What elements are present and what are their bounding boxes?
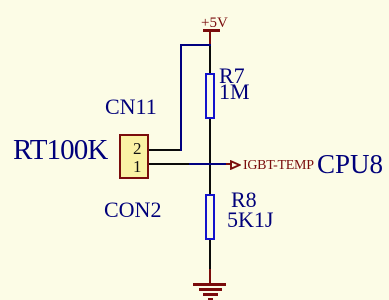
R8 value 5K1J (227, 209, 273, 231)
ground bar 1 (193, 283, 226, 286)
pin 2 number (133, 140, 142, 157)
wire pin2-to-+5V (180, 44, 211, 46)
resistor R7 pin 1 (209, 46, 211, 75)
wire pin1-to-port (189, 163, 227, 165)
pin 1 number (133, 158, 142, 175)
RT100K label (13, 136, 107, 165)
R8 pin 2 (209, 240, 211, 270)
R7 pin 2 / wire / R8 pin 1 (209, 119, 211, 196)
port label IGBT-TEMP (243, 159, 314, 173)
R7 value 1M (219, 81, 250, 103)
pin 2 stub (149, 149, 180, 151)
ground bar 4 (208, 298, 213, 300)
R7 designator (219, 65, 245, 87)
pin 1 stub (149, 163, 189, 165)
resistor R8 body (205, 194, 215, 240)
port IGBT-TEMP arrow (226, 163, 232, 165)
resistor R7 body (205, 73, 215, 119)
connector CN11 box (119, 134, 149, 179)
CON2 label (104, 199, 161, 221)
CN11 label (105, 96, 157, 118)
ground bar 3 (203, 293, 218, 296)
ground stem (209, 269, 211, 284)
R8 designator (231, 189, 257, 211)
net label CPU8 (317, 151, 383, 178)
ground bar 2 (199, 288, 222, 291)
power +5V (201, 16, 228, 30)
